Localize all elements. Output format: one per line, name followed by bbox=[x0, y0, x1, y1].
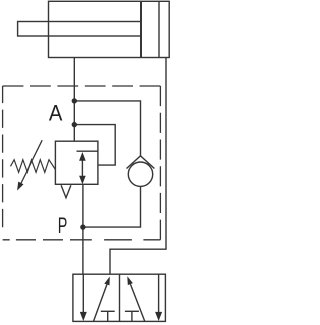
cylinder C1 piston bbox=[140, 1, 142, 57]
check valve CV1 ball bbox=[128, 162, 152, 186]
cylinder C1 piston rod bbox=[18, 22, 141, 37]
valve V1 drain triangle bbox=[61, 185, 71, 198]
valve V1 spring bbox=[11, 160, 56, 173]
pilot junction dot bbox=[72, 122, 77, 127]
directional valve DV1 divider bbox=[119, 274, 121, 321]
valve V1 adjustment arrow shaft bbox=[21, 140, 42, 183]
wire node A to check valve bbox=[74, 101, 140, 156]
DV1 left down arrowhead bbox=[80, 312, 87, 321]
check valve CV1 seat bbox=[127, 156, 155, 169]
cylinder C1 rod-end cap line bbox=[158, 1, 160, 57]
dashed enclosure box bottom edge bbox=[3, 239, 161, 241]
DV1 right diagonal arrowhead bbox=[127, 276, 133, 285]
directional valve DV1 body bbox=[73, 274, 165, 321]
node A junction dot bbox=[72, 98, 77, 103]
valve V1 internal seat line bbox=[77, 150, 98, 152]
wire check valve to node P bbox=[83, 187, 141, 228]
cylinder C1 body bbox=[49, 1, 170, 57]
pilot line from node below A to valve V1 bbox=[74, 125, 115, 166]
valve V1 arrow down head bbox=[79, 176, 86, 185]
dashed enclosure box right edge bbox=[159, 86, 161, 240]
valve V1 arrow up head bbox=[79, 152, 86, 161]
DV1 right box diagonal arrow shaft bbox=[130, 284, 144, 321]
valve V1 adjustment arrowhead bbox=[17, 182, 23, 191]
dashed enclosure box left edge bbox=[2, 86, 4, 240]
wire valve V1 outlet to node P to valve port bbox=[82, 184, 84, 274]
DV1 right down arrowhead bbox=[155, 312, 162, 321]
DV1 left box blocked port T bbox=[101, 310, 115, 312]
node P junction dot bbox=[80, 224, 85, 229]
DV1 left box diagonal arrow shaft bbox=[94, 285, 107, 322]
wire cylinder cap-end to node A bbox=[73, 58, 75, 142]
svg-text:A: A bbox=[49, 100, 63, 125]
DV1 right box blocked port T bbox=[125, 310, 139, 312]
DV1 right box down arrow shaft bbox=[158, 274, 160, 313]
wire cylinder rod-end down right side bbox=[110, 58, 166, 275]
valve V1 flow arrow shaft bbox=[81, 158, 83, 178]
DV1 left diagonal arrowhead bbox=[104, 277, 110, 286]
svg-text:P: P bbox=[58, 213, 68, 238]
counterbalance valve V1 body bbox=[55, 141, 98, 184]
dashed enclosure box top edge bbox=[3, 85, 161, 87]
DV1 left box down arrow shaft bbox=[82, 274, 84, 313]
